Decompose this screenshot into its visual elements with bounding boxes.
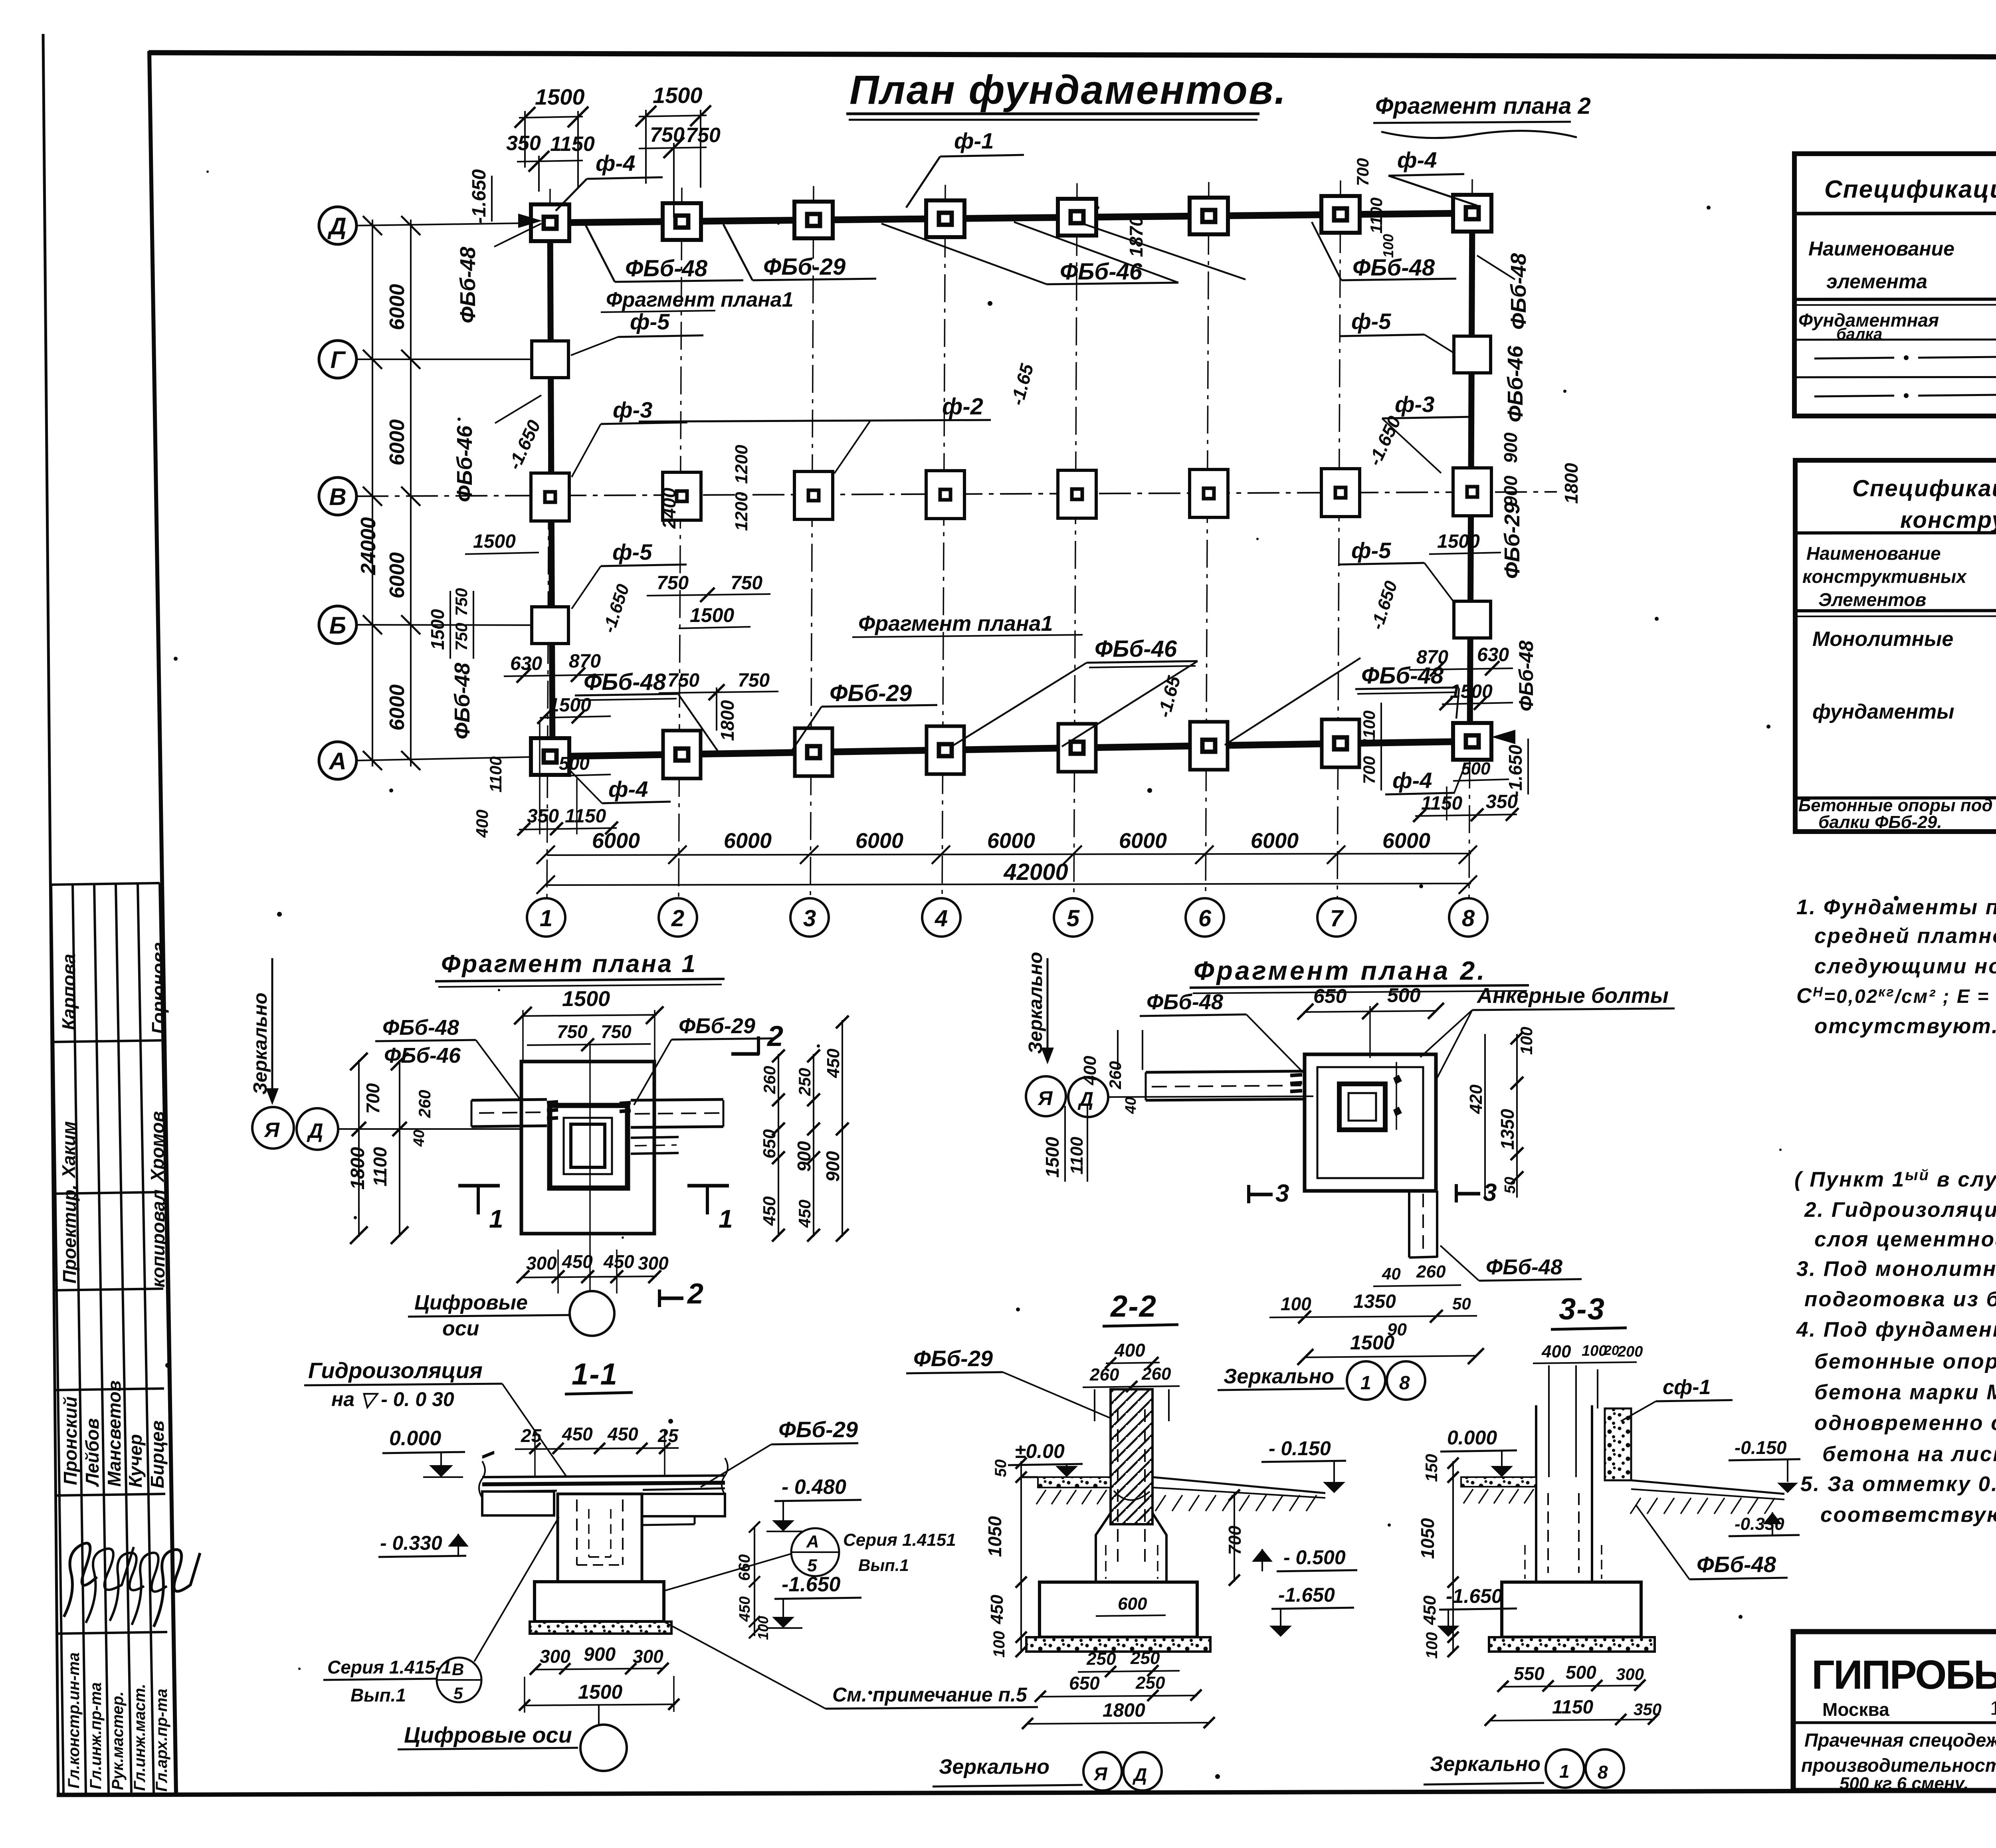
svg-text:ф-5: ф-5: [612, 539, 652, 565]
svg-text:Серия 1.415-1: Серия 1.415-1: [327, 1657, 451, 1678]
svg-text:900: 900: [1500, 432, 1521, 463]
svg-text:Гидроизоляция: Гидроизоляция: [308, 1358, 483, 1383]
svg-text:следующими нормативными: следующими нормативными характеристиками…: [1814, 954, 1996, 978]
foundation pad Ф-2 row В axis 3: [794, 471, 833, 519]
svg-text:100: 100: [755, 1616, 771, 1640]
svg-text:1500: 1500: [1350, 1331, 1394, 1354]
frag2 beam left: [1146, 1071, 1305, 1072]
footing sec2: [1040, 1582, 1197, 1637]
svg-text:40: 40: [1382, 1264, 1401, 1283]
foundation pad row Д axis 3: [794, 202, 833, 238]
svg-text:1974 г.: 1974 г.: [1990, 1698, 1996, 1719]
svg-text:ФБб-29: ФБб-29: [913, 1346, 993, 1371]
svg-text:-0.150: -0.150: [1735, 1437, 1787, 1458]
svg-text:300: 300: [526, 1253, 557, 1274]
svg-text:- 0.150: - 0.150: [1269, 1437, 1331, 1460]
axis circle 4: [922, 898, 960, 937]
column sec3: [1535, 1405, 1537, 1582]
svg-text:оси: оси: [442, 1317, 479, 1340]
svg-text:- 0.500: - 0.500: [1283, 1546, 1346, 1569]
svg-text:400: 400: [473, 810, 491, 838]
section mark 2 top: [757, 1036, 760, 1055]
anchor dashed sec2: [1117, 1409, 1119, 1569]
svg-text:4. Под фундаментные балки: 4. Под фундаментные балки ФБб-29 выполни…: [1796, 1318, 1996, 1341]
svg-text:6: 6: [1198, 905, 1212, 931]
svg-text:Фрагмент плана 2.: Фрагмент плана 2.: [1194, 956, 1487, 985]
concrete prep sec2: [1026, 1637, 1210, 1652]
foundation beam left chord axis 1: [550, 223, 552, 757]
foundation pad Ф-2 row В axis 8: [1453, 468, 1491, 516]
frag2 dims left: [1117, 1030, 1119, 1070]
svg-text:Цифровые оси: Цифровые оси: [404, 1722, 572, 1747]
svg-text:±0.00: ±0.00: [1015, 1440, 1065, 1462]
svg-text:А: А: [806, 1532, 819, 1551]
svg-text:750: 750: [601, 1021, 632, 1042]
svg-text:ф-5: ф-5: [1351, 309, 1391, 334]
right dim chain sec1: [754, 1527, 755, 1636]
svg-text:1500: 1500: [1437, 531, 1480, 552]
svg-text:6000: 6000: [386, 284, 409, 330]
svg-text:Зеркально: Зеркально: [1025, 952, 1046, 1054]
svg-text:Кучер: Кучер: [125, 1434, 146, 1488]
svg-text:260: 260: [1141, 1364, 1171, 1384]
svg-text:350: 350: [527, 806, 559, 827]
svg-text:Серия 1.4151: Серия 1.4151: [843, 1530, 956, 1550]
footing sec1: [535, 1582, 664, 1622]
svg-text:элемента: элемента: [1826, 270, 1927, 293]
frag1 vertical axis through pad: [589, 1042, 591, 1291]
svg-text:450: 450: [795, 1200, 814, 1228]
svg-text:6000: 6000: [592, 829, 640, 853]
svg-text:ФБб-46: ФБб-46: [1503, 345, 1527, 422]
svg-text:450: 450: [987, 1594, 1007, 1624]
left dimension chain 6000s: [372, 220, 373, 767]
svg-text:Я: Я: [1037, 1087, 1053, 1109]
svg-text:А: А: [328, 748, 346, 774]
svg-text:450: 450: [562, 1251, 593, 1272]
svg-text:250: 250: [1086, 1649, 1116, 1669]
svg-text:700: 700: [1353, 158, 1372, 186]
svg-text:1100: 1100: [1360, 711, 1378, 747]
svg-text:сф-1: сф-1: [1663, 1376, 1711, 1399]
svg-text:3. Под монолитные фундаме: 3. Под монолитные фундаменты предусматри…: [1796, 1257, 1996, 1281]
svg-text:Зеркально: Зеркально: [939, 1755, 1049, 1779]
svg-text:СН=0,02кг/см² ; Е = 150кг/см²: СН=0,02кг/см² ; Е = 150кг/см² ; γо = 1,8…: [1796, 984, 1996, 1010]
svg-text:40: 40: [1123, 1097, 1139, 1114]
section mark 3 right: [1456, 1192, 1480, 1196]
axis line А: [356, 757, 553, 761]
svg-text:Наименование: Наименование: [1806, 543, 1941, 564]
foundation beam bottom chord axis А: [550, 741, 1472, 757]
axis circle А frag2: [1026, 1076, 1066, 1116]
floor slab sec1: [482, 1476, 725, 1477]
svg-text:В: В: [452, 1660, 464, 1679]
right dim 700 sec2: [1234, 1493, 1235, 1582]
svg-text:Мансветов: Мансветов: [104, 1381, 125, 1487]
svg-text:100: 100: [1517, 1027, 1536, 1055]
axis circle Г: [319, 341, 356, 378]
svg-text:ф-4: ф-4: [1397, 147, 1437, 172]
svg-text:1-1: 1-1: [572, 1357, 618, 1391]
bottom dimension chain 6000: [547, 854, 1471, 855]
svg-text:отсутствуют.: отсутствуют.: [1814, 1014, 1996, 1038]
svg-text:100: 100: [1582, 1343, 1607, 1359]
svg-text:Гл.констр.ин-та: Гл.констр.ин-та: [65, 1652, 83, 1789]
svg-text:ф-5: ф-5: [1351, 538, 1391, 563]
svg-text:2. Гидроизоляцию стен на: 2. Гидроизоляцию стен на отм. - 0.03 вып…: [1804, 1198, 1996, 1222]
frag1 axis circle bottom: [570, 1291, 614, 1336]
section mark 3 left: [1249, 1193, 1273, 1196]
svg-text:См. примечание п.5: См. примечание п.5: [832, 1684, 1028, 1706]
svg-text:Зеркально: Зеркально: [250, 992, 271, 1095]
svg-text:Д: Д: [1132, 1764, 1147, 1785]
svg-text:слоя цементного раствора: слоя цементного раствора состава 1:2 тол…: [1814, 1228, 1996, 1251]
svg-text:1870: 1870: [1126, 216, 1147, 257]
foundation pad row А axis 5: [1058, 724, 1096, 772]
svg-text:300: 300: [1616, 1665, 1644, 1684]
axis circle Б: [319, 606, 356, 644]
svg-text:1100: 1100: [370, 1147, 390, 1186]
svg-text:1: 1: [719, 1204, 733, 1233]
svg-text:Спецификация сборных ж.б.: Спецификация сборных ж.б. элементов.: [1824, 176, 1996, 203]
svg-text:7: 7: [1330, 905, 1344, 931]
foundation pad Ф-2 row В axis 1: [531, 473, 569, 521]
foundation pad Ф-2 row В axis 7: [1321, 469, 1360, 517]
title block frame: [1793, 1632, 1996, 1791]
foundation pad row А axis 8: [1453, 723, 1491, 760]
svg-text:Фрагмент плана 1: Фрагмент плана 1: [441, 950, 697, 978]
svg-text:ФБб-46: ФБб-46: [453, 425, 477, 502]
svg-text:450: 450: [824, 1048, 843, 1078]
svg-text:Д: Д: [327, 213, 346, 240]
pедestal sec1: [558, 1494, 642, 1582]
svg-text:1350: 1350: [1353, 1291, 1396, 1312]
svg-text:ФБб-29: ФБб-29: [679, 1014, 755, 1038]
svg-text:Я: Я: [1093, 1763, 1108, 1784]
svg-text:1200: 1200: [732, 445, 751, 484]
svg-text:6000: 6000: [386, 684, 409, 731]
frag2 column: [1339, 1084, 1385, 1130]
svg-text:1350: 1350: [1497, 1109, 1518, 1150]
svg-text:6000: 6000: [987, 829, 1035, 853]
svg-text:Москва: Москва: [1822, 1699, 1889, 1720]
section mark 1 left: [458, 1184, 500, 1188]
svg-text:50: 50: [1502, 1177, 1519, 1194]
svg-text:260: 260: [415, 1090, 434, 1118]
series callout circle A5: [791, 1528, 839, 1576]
svg-text:ф-4: ф-4: [608, 776, 648, 802]
axis circle 8 frag2: [1387, 1361, 1425, 1400]
svg-text:Карпова: Карпова: [58, 954, 79, 1030]
section mark 2 bottom: [659, 1297, 683, 1300]
svg-text:ФБб-48: ФБб-48: [1486, 1255, 1562, 1279]
foundation pad row А axis 6: [1190, 722, 1228, 770]
frag1 footing outline: [521, 1062, 654, 1234]
svg-text:900: 900: [584, 1644, 616, 1665]
svg-text:750: 750: [738, 670, 770, 691]
foundation beam right chord axis 8: [1470, 213, 1472, 741]
svg-text:конструктивных элементов.: конструктивных элементов.: [1900, 507, 1996, 533]
svg-text:1050: 1050: [1417, 1518, 1438, 1559]
svg-text:1: 1: [1559, 1761, 1570, 1782]
svg-text:-1.650: -1.650: [469, 169, 490, 224]
vertical axis grid lines: [547, 189, 550, 899]
frag1 column: [564, 1118, 612, 1174]
svg-text:Спецификация монолитных ж: Спецификация монолитных ж.б.: [1852, 475, 1996, 501]
svg-text:Гл.арх.пр-та: Гл.арх.пр-та: [153, 1689, 170, 1792]
svg-text:1500: 1500: [1042, 1137, 1063, 1178]
svg-text:6000: 6000: [724, 829, 772, 853]
foundation pad row А axis 2: [663, 731, 701, 778]
foundation pad Ф-2 row В axis 5: [1058, 470, 1096, 518]
svg-text:Д: Д: [1077, 1088, 1093, 1110]
svg-text:2: 2: [671, 905, 684, 931]
svg-text:450: 450: [607, 1424, 638, 1444]
svg-text:40: 40: [411, 1130, 428, 1147]
svg-text:500: 500: [1566, 1662, 1596, 1683]
svg-text:1500: 1500: [427, 609, 448, 650]
svg-text:20: 20: [1604, 1343, 1619, 1358]
foundation pad row Д axis 5: [1058, 199, 1096, 236]
svg-text:ФБб-29: ФБб-29: [1500, 502, 1524, 579]
frag1 pedestal: [550, 1105, 628, 1188]
svg-text:420: 420: [1466, 1084, 1486, 1114]
svg-text:ФБб-48: ФБб-48: [1515, 640, 1537, 711]
svg-text:300: 300: [633, 1646, 663, 1667]
svg-text:1: 1: [489, 1204, 503, 1233]
page left thin border: [43, 34, 58, 1795]
svg-text:конструктивных: конструктивных: [1802, 566, 1967, 587]
frag2 vertical beam below: [1408, 1191, 1410, 1258]
svg-text:900: 900: [822, 1151, 843, 1182]
svg-text:ф-3: ф-3: [613, 397, 652, 422]
svg-text:2-2: 2-2: [1110, 1289, 1157, 1323]
svg-text:Д: Д: [307, 1119, 323, 1143]
svg-text:1: 1: [1360, 1373, 1371, 1394]
svg-text:450: 450: [737, 1596, 753, 1622]
axis circle 1: [527, 898, 565, 937]
svg-text:260: 260: [1416, 1262, 1446, 1282]
svg-text:-1.650: -1.650: [1446, 1585, 1503, 1607]
concrete prep sec3: [1489, 1637, 1655, 1652]
foundation pad Ф-5 edge: [532, 341, 568, 378]
svg-text:ф-2: ф-2: [942, 394, 983, 420]
svg-text:300: 300: [638, 1253, 669, 1274]
svg-text:3: 3: [803, 905, 816, 931]
foundation pad row А axis 1: [531, 738, 569, 775]
svg-text:Зеркально: Зеркально: [1224, 1365, 1334, 1388]
column sec2: [1111, 1389, 1152, 1524]
svg-text:3: 3: [1275, 1180, 1289, 1207]
svg-text:700: 700: [362, 1083, 383, 1114]
svg-text:ФБб-48: ФБб-48: [1352, 255, 1435, 281]
axis line frag2: [1108, 1096, 1313, 1097]
svg-text:1150: 1150: [550, 133, 595, 156]
svg-text:Хаким: Хаким: [58, 1121, 79, 1179]
axis line Д: [356, 223, 553, 226]
svg-text:550: 550: [1514, 1663, 1545, 1684]
svg-text:Фрагмент плана1: Фрагмент плана1: [606, 288, 794, 311]
svg-text:Фрагмент плана1: Фрагмент плана1: [858, 612, 1053, 636]
svg-text:500: 500: [559, 753, 590, 774]
foundation pad row А axis 3: [795, 728, 832, 776]
svg-text:6000: 6000: [1251, 829, 1299, 853]
svg-text:ФБб-48: ФБб-48: [1507, 253, 1531, 330]
svg-text:5: 5: [1067, 905, 1080, 931]
svg-text:25: 25: [521, 1425, 542, 1446]
svg-text:Горюнова: Горюнова: [148, 942, 169, 1034]
svg-text:700: 700: [1225, 1525, 1245, 1555]
svg-text:6000: 6000: [855, 829, 903, 853]
pedestal trapezoid sec2: [1096, 1488, 1166, 1582]
axis circle 5: [1054, 898, 1092, 937]
axis circle Д frag1: [297, 1108, 338, 1150]
svg-text:750: 750: [557, 1021, 588, 1042]
svg-text:200: 200: [1617, 1343, 1643, 1360]
svg-text:100: 100: [1423, 1632, 1441, 1659]
svg-text:650: 650: [760, 1129, 779, 1159]
svg-text:900: 900: [794, 1141, 814, 1172]
foundation pad row Д axis 6: [1190, 198, 1228, 234]
svg-text:на ▽ - 0. 0 30: на ▽ - 0. 0 30: [331, 1388, 454, 1410]
svg-text:копировал: копировал: [148, 1189, 168, 1287]
svg-text:5: 5: [453, 1684, 463, 1703]
svg-text:0.000: 0.000: [1447, 1426, 1497, 1449]
svg-text:630: 630: [1477, 644, 1509, 666]
svg-text:Гл.инж.пр-та: Гл.инж.пр-та: [87, 1682, 105, 1789]
svg-text:Хромов: Хромов: [147, 1111, 168, 1183]
foundation pad Ф-5 edge: [1454, 601, 1491, 638]
svg-text:1500: 1500: [549, 695, 591, 716]
svg-text:Вып.1: Вып.1: [858, 1556, 909, 1575]
svg-text:24000: 24000: [357, 517, 380, 575]
svg-text:50: 50: [1452, 1294, 1471, 1313]
foundation pad row Д axis 8: [1453, 195, 1491, 232]
svg-text:( Пункт 1ый в случае отлич: ( Пункт 1ый в случае отличия зачеркнуть): [1794, 1167, 1996, 1191]
axis circle 6: [1186, 898, 1224, 937]
axis line В: [356, 492, 1557, 496]
svg-text:ФБб-46: ФБб-46: [1060, 259, 1143, 285]
floor sec3: [1461, 1477, 1536, 1487]
svg-text:ФБб-29: ФБб-29: [763, 254, 846, 280]
axis circle 1 frag2: [1347, 1361, 1385, 1400]
svg-text:50: 50: [992, 1460, 1010, 1478]
svg-text:5: 5: [807, 1556, 817, 1575]
svg-text:1800: 1800: [347, 1147, 368, 1190]
frag1 beam left: [471, 1099, 547, 1100]
svg-text:2: 2: [687, 1278, 703, 1310]
svg-text:150: 150: [1422, 1454, 1441, 1482]
svg-text:-1.650: -1.650: [1505, 745, 1526, 797]
svg-text:одновременно с монолитными: одновременно с монолитными фундаментами …: [1814, 1411, 1996, 1435]
svg-text:Лейбов: Лейбов: [82, 1418, 103, 1487]
svg-text:4: 4: [935, 905, 948, 931]
svg-text:бетона на листе АС-8.: бетона на листе АС-8.: [1822, 1442, 1996, 1466]
svg-text:- 0.330: - 0.330: [380, 1532, 442, 1554]
foundation beam top chord axis Д: [550, 213, 1472, 223]
svg-text:250: 250: [795, 1068, 814, 1096]
frame left border: [149, 51, 176, 1793]
svg-text:1500: 1500: [690, 604, 734, 626]
svg-text:450: 450: [1420, 1595, 1440, 1625]
frag1 beam right: [631, 1099, 723, 1100]
axis circle 3: [790, 898, 829, 937]
svg-text:Анкерные болты: Анкерные болты: [1476, 984, 1669, 1008]
svg-text:2: 2: [766, 1020, 783, 1052]
svg-text:Проектир.: Проектир.: [59, 1184, 80, 1283]
svg-text:400: 400: [1541, 1342, 1571, 1361]
svg-text:- 0.480: - 0.480: [782, 1476, 846, 1499]
axis circle 8: [1449, 898, 1487, 937]
svg-text:1100: 1100: [1367, 198, 1386, 234]
svg-text:650: 650: [1069, 1673, 1100, 1694]
svg-text:ФБб-48: ФБб-48: [456, 247, 480, 323]
svg-text:производительностью: производительностью: [1801, 1755, 1996, 1776]
svg-text:ф-4: ф-4: [1392, 768, 1432, 793]
svg-text:900: 900: [1500, 475, 1521, 506]
svg-text:400: 400: [1080, 1056, 1100, 1085]
svg-text:1500: 1500: [653, 83, 703, 108]
foundation pad Ф-2 row В axis 2: [663, 472, 701, 520]
floor line sec2: [1038, 1477, 1111, 1488]
specification table 2 (monolithic elements): [1795, 460, 1996, 832]
svg-text:400: 400: [1114, 1340, 1145, 1361]
svg-text:Элементов: Элементов: [1818, 589, 1926, 610]
foundation pad row Д axis 4: [926, 200, 964, 237]
svg-text:500 кг 6 смену.: 500 кг 6 смену.: [1840, 1774, 1968, 1793]
dim chain right frag1: [778, 1054, 779, 1237]
svg-text:ф-5: ф-5: [630, 309, 670, 334]
svg-text:соответствующая абсолютной: соответствующая абсолютной: [1820, 1503, 1996, 1527]
axis circle 2: [659, 898, 697, 937]
svg-text:660: 660: [736, 1554, 753, 1581]
svg-text:Монолитные: Монолитные: [1812, 628, 1953, 651]
left beam sec1: [482, 1491, 554, 1515]
axis line Б: [356, 625, 553, 625]
frame top border: [149, 53, 1996, 58]
svg-text:25: 25: [657, 1425, 679, 1446]
svg-text:1150: 1150: [1552, 1697, 1594, 1718]
svg-text:100: 100: [1281, 1293, 1311, 1314]
right beam sec1: [642, 1494, 725, 1516]
axis circle 7: [1317, 898, 1356, 937]
svg-text:Фрагмент плана 2: Фрагмент плана 2: [1375, 93, 1591, 119]
svg-text:1100: 1100: [486, 757, 505, 792]
ground hatch sec3: [1630, 1498, 1641, 1514]
signature sidebar table: [51, 883, 176, 1793]
svg-text:подготовка из бетона марки: подготовка из бетона марки М50 толщиной …: [1804, 1287, 1996, 1311]
svg-text:ФБб-29: ФБб-29: [778, 1417, 858, 1442]
svg-text:ф-1: ф-1: [954, 128, 994, 153]
svg-text:500: 500: [1387, 984, 1421, 1006]
svg-text:Г: Г: [331, 347, 347, 373]
svg-text:-1.650: -1.650: [1278, 1584, 1335, 1606]
foundation pad Ф-2 row В axis 6: [1190, 469, 1228, 517]
svg-text:1500: 1500: [473, 531, 516, 552]
signatures: [64, 1543, 97, 1617]
svg-text:Б: Б: [329, 612, 346, 639]
svg-text:6000: 6000: [386, 552, 409, 598]
svg-text:450: 450: [603, 1251, 634, 1272]
svg-text:6000: 6000: [1382, 829, 1430, 853]
footing sec3: [1502, 1582, 1641, 1637]
foundation pad row Д axis 2: [663, 203, 701, 240]
svg-text:Наименование: Наименование: [1808, 238, 1954, 260]
svg-text:ФБб-46: ФБб-46: [384, 1044, 461, 1068]
frame bottom border: [57, 1789, 1996, 1795]
axis line frag1: [338, 1128, 523, 1130]
svg-text:6000: 6000: [386, 419, 409, 465]
